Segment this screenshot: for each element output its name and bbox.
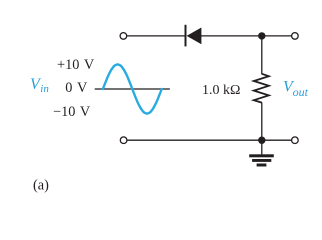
terminal: output bottom-right — [292, 137, 299, 144]
terminal: input top-left — [120, 33, 127, 40]
svg-text:out: out — [293, 85, 309, 99]
svg-text:+10 V: +10 V — [57, 57, 95, 73]
sine wave source Vin — [103, 64, 162, 113]
node: bottom junction — [258, 137, 265, 144]
wire: vertical from top junction down to resistor — [261, 36, 263, 74]
svg-text:−10 V: −10 V — [53, 104, 91, 120]
svg-text:in: in — [40, 83, 49, 95]
wire: diode to top junction and on to output terminal — [201, 35, 292, 37]
node: top junction (Vout node) — [258, 32, 265, 39]
label: Vout — [283, 78, 309, 99]
wire: resistor to bottom rail — [261, 102, 263, 140]
terminal: output top-right — [292, 33, 299, 40]
svg-text:(a): (a) — [33, 178, 49, 194]
resistor R1 zigzag — [254, 74, 269, 103]
terminal: input bottom-left — [120, 137, 127, 144]
wire: bottom rail — [127, 139, 291, 141]
wire: top rail, input terminal to diode — [127, 35, 185, 37]
label: Vin — [30, 76, 49, 95]
svg-text:1.0 kΩ: 1.0 kΩ — [202, 83, 240, 98]
wire: 0 V reference axis line — [95, 88, 170, 90]
diode D1 (cathode bar + triangle) — [186, 25, 202, 47]
svg-text:0 V: 0 V — [65, 80, 88, 96]
ground — [249, 140, 274, 166]
